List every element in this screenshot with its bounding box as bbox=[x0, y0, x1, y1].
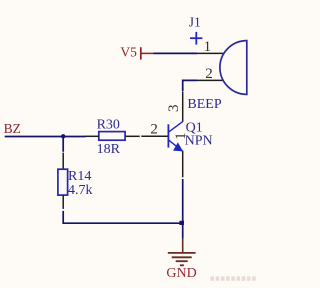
junction node bbox=[179, 221, 184, 225]
resistor R30 body bbox=[99, 132, 125, 141]
svg-text:GND: GND bbox=[166, 266, 196, 281]
resistor R30 left pin bbox=[85, 135, 99, 137]
wire emitter to ground bbox=[182, 179, 184, 239]
svg-text:V5: V5 bbox=[120, 45, 137, 60]
svg-text:2: 2 bbox=[205, 66, 213, 82]
buzzer LS1 body bbox=[220, 40, 247, 95]
svg-text:R14: R14 bbox=[68, 169, 91, 184]
polarity plus mark bbox=[190, 32, 202, 45]
resistor R14 body bbox=[58, 169, 68, 195]
resistor R30 right pin bbox=[125, 135, 140, 137]
pin 1 of J1 bbox=[197, 52, 224, 54]
base pin of Q1 bbox=[141, 135, 167, 137]
pin 2 of J1 bbox=[197, 79, 224, 81]
svg-text:J1: J1 bbox=[189, 15, 201, 30]
svg-text:18R: 18R bbox=[97, 142, 121, 157]
wire down from junction bbox=[62, 137, 64, 152]
collector pin of Q1 bbox=[182, 92, 184, 122]
emitter pin of Q1 bbox=[182, 151, 184, 177]
transistor Q1 symbol bbox=[168, 121, 183, 151]
svg-text:1: 1 bbox=[204, 39, 212, 55]
resistor R14 bottom pin bbox=[62, 195, 64, 209]
emitter arrow of Q1 bbox=[173, 142, 183, 151]
svg-text:3: 3 bbox=[166, 105, 182, 113]
wire BZ net bbox=[5, 136, 86, 138]
svg-text:2: 2 bbox=[150, 121, 158, 137]
ground symbol bbox=[168, 239, 196, 266]
wire BEEP net upper bbox=[183, 80, 197, 91]
svg-text:NPN: NPN bbox=[185, 133, 213, 148]
watermark bbox=[211, 276, 256, 280]
svg-text:R30: R30 bbox=[97, 117, 120, 132]
svg-text:BZ: BZ bbox=[4, 121, 21, 136]
resistor R14 top pin bbox=[62, 153, 64, 170]
wire bottom rail bbox=[63, 211, 182, 223]
wire V5 net bbox=[154, 52, 198, 54]
port V5 bbox=[120, 45, 153, 60]
svg-text:BEEP: BEEP bbox=[187, 97, 221, 112]
svg-text:4.7k: 4.7k bbox=[68, 183, 93, 198]
junction node bbox=[61, 134, 65, 138]
